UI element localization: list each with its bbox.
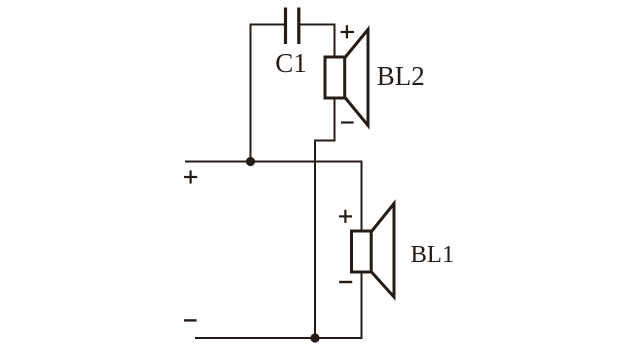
wire: top horizontal from C1 left plate to corner, then down to + rail junction bbox=[251, 25, 285, 162]
speaker BL1 bbox=[352, 204, 395, 298]
speaker BL2 bbox=[325, 30, 368, 126]
label: BL2 - sign bbox=[341, 121, 354, 123]
label: input - sign bbox=[184, 319, 197, 321]
wire: C1 right plate to BL2 plus terminal bbox=[300, 25, 335, 58]
label: BL2 + sign bbox=[341, 25, 354, 38]
label: input + sign bbox=[184, 170, 197, 183]
label: BL1 + sign bbox=[339, 210, 352, 223]
label: BL1 - sign bbox=[339, 281, 352, 283]
svg-text:BL2: BL2 bbox=[377, 61, 425, 91]
capacitor C1 bbox=[284, 8, 287, 45]
svg-text:BL1: BL1 bbox=[411, 241, 455, 268]
wire: BL1 minus lead down, then - rail left to input terminal bbox=[195, 273, 362, 339]
wire: BL2 minus lead, jog left, down across + rail to - rail bbox=[315, 98, 335, 338]
svg-text:C1: C1 bbox=[275, 48, 307, 78]
node: junction of C1 branch and + rail bbox=[246, 157, 255, 166]
wire: + rail from input terminal to BL1 plus lead bbox=[185, 162, 362, 232]
node: junction of BL2 minus lead and - rail bbox=[310, 333, 319, 342]
